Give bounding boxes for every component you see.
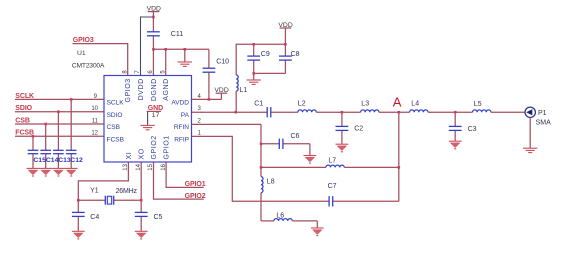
svg-text:GPIO2: GPIO2 [185,193,206,200]
svg-text:RFIN: RFIN [174,124,189,131]
svg-text:VDD: VDD [278,22,292,29]
svg-text:13: 13 [123,163,129,170]
svg-text:XI: XI [126,152,133,160]
svg-text:C11: C11 [171,31,183,38]
svg-text:L2: L2 [298,100,306,107]
svg-text:14: 14 [136,163,142,170]
svg-text:SCLK: SCLK [15,93,34,100]
svg-text:C12: C12 [70,157,83,164]
svg-text:CSB: CSB [15,117,30,124]
svg-text:L3: L3 [361,100,369,107]
svg-text:SDIO: SDIO [15,105,32,112]
svg-text:GPIO1: GPIO1 [164,135,171,159]
svg-text:VDD: VDD [214,87,228,94]
svg-text:DGND: DGND [151,78,158,101]
svg-text:GPIO1: GPIO1 [185,181,206,188]
svg-text:P1: P1 [538,110,547,117]
svg-text:A: A [393,94,402,109]
svg-text:CSB: CSB [107,124,120,131]
svg-text:3: 3 [198,106,202,112]
svg-text:C13: C13 [58,157,71,164]
svg-text:L7: L7 [328,157,336,164]
svg-text:15: 15 [148,163,154,170]
svg-text:CMT2300A: CMT2300A [72,63,105,70]
svg-text:L5: L5 [474,101,482,108]
svg-text:SMA: SMA [536,120,552,127]
svg-text:GPIO3: GPIO3 [73,37,94,44]
svg-text:17: 17 [152,112,160,119]
svg-text:AGND: AGND [163,78,170,100]
svg-text:C14: C14 [46,157,59,164]
svg-text:Y1: Y1 [90,187,99,194]
svg-text:PA: PA [181,112,190,119]
svg-text:L8: L8 [267,178,275,185]
svg-text:C1: C1 [254,100,263,107]
svg-text:L1: L1 [239,87,247,94]
svg-text:C3: C3 [468,126,477,133]
svg-text:XO: XO [139,148,146,159]
svg-text:C8: C8 [291,51,300,58]
svg-text:SDIO: SDIO [107,112,123,119]
svg-text:C6: C6 [291,133,300,140]
svg-text:GPIO3: GPIO3 [125,78,132,102]
svg-text:26MHz: 26MHz [116,188,138,195]
svg-text:C4: C4 [90,214,99,221]
svg-text:C10: C10 [216,58,229,65]
svg-text:FCSB: FCSB [15,130,34,137]
svg-text:DVDD: DVDD [138,78,145,100]
svg-text:FCSB: FCSB [107,136,124,143]
svg-text:RFIP: RFIP [174,136,189,143]
svg-text:L4: L4 [411,100,419,107]
svg-text:C9: C9 [261,51,270,58]
svg-text:SCLK: SCLK [107,100,125,107]
svg-text:VDD: VDD [147,6,161,13]
svg-text:U1: U1 [77,50,86,57]
svg-text:11: 11 [92,118,99,124]
svg-text:10: 10 [91,106,98,112]
svg-text:L6: L6 [276,212,284,219]
svg-text:C15: C15 [33,157,46,164]
svg-text:C5: C5 [154,214,163,221]
svg-text:16: 16 [161,163,167,170]
svg-text:AVDD: AVDD [171,100,189,107]
svg-text:C2: C2 [354,125,363,132]
svg-text:GPIO2: GPIO2 [151,135,158,159]
svg-text:12: 12 [91,131,98,137]
svg-text:C7: C7 [328,183,337,190]
svg-text:2: 2 [198,118,202,124]
